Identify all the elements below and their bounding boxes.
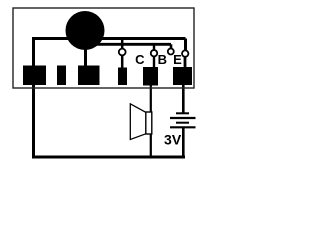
wire: stub bus to terminal circle C-side <box>121 39 124 49</box>
battery BT1 plate long 2 <box>170 126 196 128</box>
block pad 4 (under C terminal) <box>118 68 127 86</box>
block pad 6 (under E terminal, to battery) <box>173 67 192 85</box>
terminal circle between C and B <box>151 50 157 56</box>
svg-text:C: C <box>135 52 145 67</box>
wire: bus B second horizontal from transistor <box>97 43 171 46</box>
wire: bus A right drop to E-side terminal <box>184 39 187 51</box>
wire: bus A top horizontal <box>32 37 186 40</box>
svg-text:E: E <box>173 52 182 67</box>
wire: transistor lead down to block R3 <box>84 48 87 67</box>
block pad 3 (under transistor lead) <box>78 66 100 86</box>
block pad 1 (left, wire-through) <box>23 66 46 86</box>
battery BT1 plate long 1 <box>170 117 196 119</box>
svg-text:3V: 3V <box>164 132 182 148</box>
terminal circle near C <box>119 49 126 56</box>
wire: stub terminal circle to block R5 <box>153 56 155 68</box>
wire: speaker branch vertical <box>150 85 152 157</box>
wire: left vertical from rect1 down to bottom bus <box>32 38 35 157</box>
terminal circle right of E <box>182 50 188 56</box>
wire: stub terminal circle to block R4 <box>121 55 124 68</box>
block pad 5 (under B terminal, to speaker) <box>143 67 158 86</box>
svg-text:B: B <box>158 52 167 67</box>
enclosure frame box <box>13 8 194 88</box>
battery BT1 plate short 2 <box>176 122 189 124</box>
block pad 2 <box>57 66 66 86</box>
wire: stub terminal circle E-right to block R6 <box>184 57 187 69</box>
speaker LS1 cone <box>130 104 146 140</box>
speaker LS1 driver rectangle <box>146 112 152 134</box>
wire: stub bus B to terminal circle B-left <box>153 44 155 50</box>
battery BT1 plate short 1 <box>176 112 189 114</box>
wire: bus B right drop to B terminal circle <box>170 44 173 48</box>
transistor body (top view, filled circle) <box>66 11 105 50</box>
terminal circle between B and E <box>168 49 174 55</box>
wire: battery branch top <box>182 85 185 113</box>
wire: battery branch bottom to return bus <box>182 127 185 157</box>
wire: bottom return bus <box>32 156 185 159</box>
